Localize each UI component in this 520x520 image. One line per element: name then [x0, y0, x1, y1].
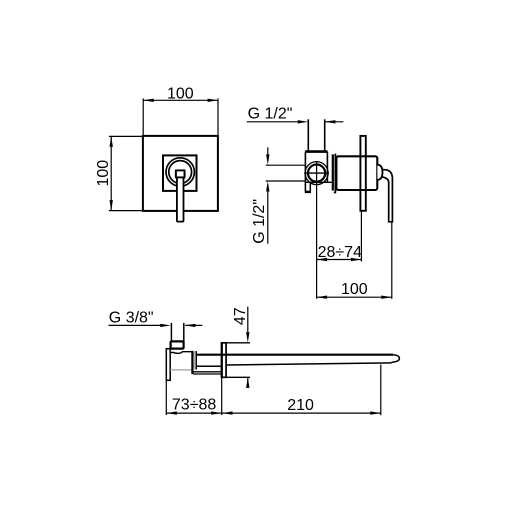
spout: wall plate flange — [222, 343, 227, 378]
dim front width: extension lines — [142, 98, 144, 135]
dim valve 100: dimension line — [317, 296, 392, 298]
valve: top supply pipe walls — [307, 119, 309, 151]
spout: rounded tip — [391, 355, 399, 363]
spout: flange top extension line — [221, 342, 250, 344]
dim spout 47: dimension line with arrows — [247, 307, 249, 332]
front view: inner circle of handle base — [169, 161, 192, 184]
dim valve inlet: vertical dimension line with arrows — [267, 147, 269, 155]
front view: handle lever rod — [177, 174, 184, 222]
spout: leader with arrows — [109, 324, 161, 326]
valve: body outline — [304, 152, 306, 192]
spout: wall flange — [166, 349, 170, 381]
dim valve inlet: extension lines — [266, 164, 306, 166]
spout: body top edge with fillet — [170, 352, 192, 354]
valve: center line vertical (also extension for dims) — [316, 161, 318, 299]
valve: inlet cross horizontal — [304, 172, 329, 174]
valve: handle dome hub — [377, 165, 382, 180]
front view: outer circle of handle base — [166, 158, 194, 186]
spout: tube bottom edge — [226, 363, 391, 365]
svg-text:G 3/8": G 3/8" — [109, 310, 154, 327]
spout: supply pipe walls — [170, 323, 172, 342]
valve: mounting flange bars — [332, 154, 334, 190]
svg-text:G 1/2": G 1/2" — [251, 199, 268, 244]
dim front width: dimension line 100 — [143, 99, 218, 101]
dim valve pipe: leader with arrows — [247, 121, 298, 123]
valve: lever handle arm — [381, 170, 393, 222]
valve: cartridge housing — [336, 156, 377, 190]
dim valve 100: extension line at lever — [391, 222, 393, 299]
svg-text:47: 47 — [232, 307, 249, 325]
dim spout 73-88: dimension line — [166, 412, 221, 414]
spout: tube top edge — [196, 354, 393, 356]
front view: handle hub — [176, 170, 185, 177]
dim front height: dimension line 100 — [110, 136, 112, 210]
spout: adjustment collar — [191, 351, 193, 374]
spout: rear tube bottom — [196, 365, 222, 367]
dim valve 28-74: dimension line — [317, 259, 362, 261]
svg-text:28÷74: 28÷74 — [318, 244, 362, 261]
valve: wall plate edge-on — [360, 136, 365, 211]
valve: inlet port inner circle — [308, 165, 325, 182]
svg-text:210: 210 — [287, 397, 314, 414]
front view: wall plate square 100x100 — [143, 136, 218, 211]
valve: bottom foot — [309, 182, 311, 191]
dim spout 210: extension line at tip — [380, 365, 382, 416]
svg-text:73÷88: 73÷88 — [172, 396, 216, 413]
svg-text:100: 100 — [341, 281, 368, 298]
svg-text:100: 100 — [167, 85, 194, 102]
spout: lower bar — [193, 372, 222, 374]
dim spout 210: dimension line — [222, 412, 381, 414]
front view: escutcheon inner square — [163, 155, 197, 191]
valve: body top cap — [305, 150, 327, 153]
dim spout 73-88: extension lines — [165, 381, 167, 416]
dim front height: extension lines — [109, 135, 143, 137]
spout: flange bottom extension line — [221, 376, 250, 378]
svg-text:G 1/2": G 1/2" — [248, 105, 293, 122]
valve: inlet boss outer circle — [305, 162, 328, 185]
dim valve 28-74: extension line at wall plate — [360, 212, 362, 262]
spout: connection nut — [171, 341, 184, 348]
spout: body bottom edge gray — [170, 369, 192, 371]
svg-text:100: 100 — [95, 160, 112, 187]
